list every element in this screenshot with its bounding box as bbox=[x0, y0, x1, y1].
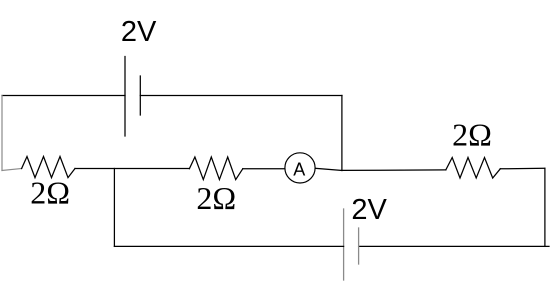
battery B1 long plate bbox=[124, 57, 126, 137]
wire right vertical from top bbox=[341, 96, 343, 171]
wire left slant bbox=[2, 169, 22, 171]
wire junction vertical bbox=[113, 169, 115, 247]
resistor R3 bbox=[446, 158, 501, 179]
wire R3 to right edge bbox=[500, 167, 545, 170]
wire to R3 bbox=[342, 169, 446, 172]
wire to ammeter bbox=[243, 168, 285, 170]
battery B1 short plate bbox=[139, 76, 141, 115]
svg-text:2Ω: 2Ω bbox=[452, 117, 492, 153]
battery B2 short plate bbox=[358, 228, 360, 264]
battery B2 long plate bbox=[343, 209, 345, 280]
wire bottom right bbox=[359, 245, 549, 247]
svg-text:2Ω: 2Ω bbox=[196, 180, 236, 216]
wire ammeter right lead bbox=[315, 168, 342, 170]
resistor R1 bbox=[22, 157, 75, 178]
svg-text:2V: 2V bbox=[351, 194, 387, 226]
wire middle bbox=[75, 168, 189, 170]
wire left vertical bbox=[1, 96, 3, 171]
wire bottom left bbox=[114, 245, 343, 247]
ammeter U1 circle bbox=[285, 153, 315, 183]
svg-text:2V: 2V bbox=[121, 16, 157, 48]
resistor R2 bbox=[189, 157, 242, 180]
wire top left bbox=[2, 95, 125, 97]
wire top right bbox=[140, 95, 342, 97]
svg-text:A: A bbox=[293, 159, 305, 179]
wire right edge vertical bbox=[544, 168, 546, 246]
svg-text:2Ω: 2Ω bbox=[30, 174, 70, 210]
